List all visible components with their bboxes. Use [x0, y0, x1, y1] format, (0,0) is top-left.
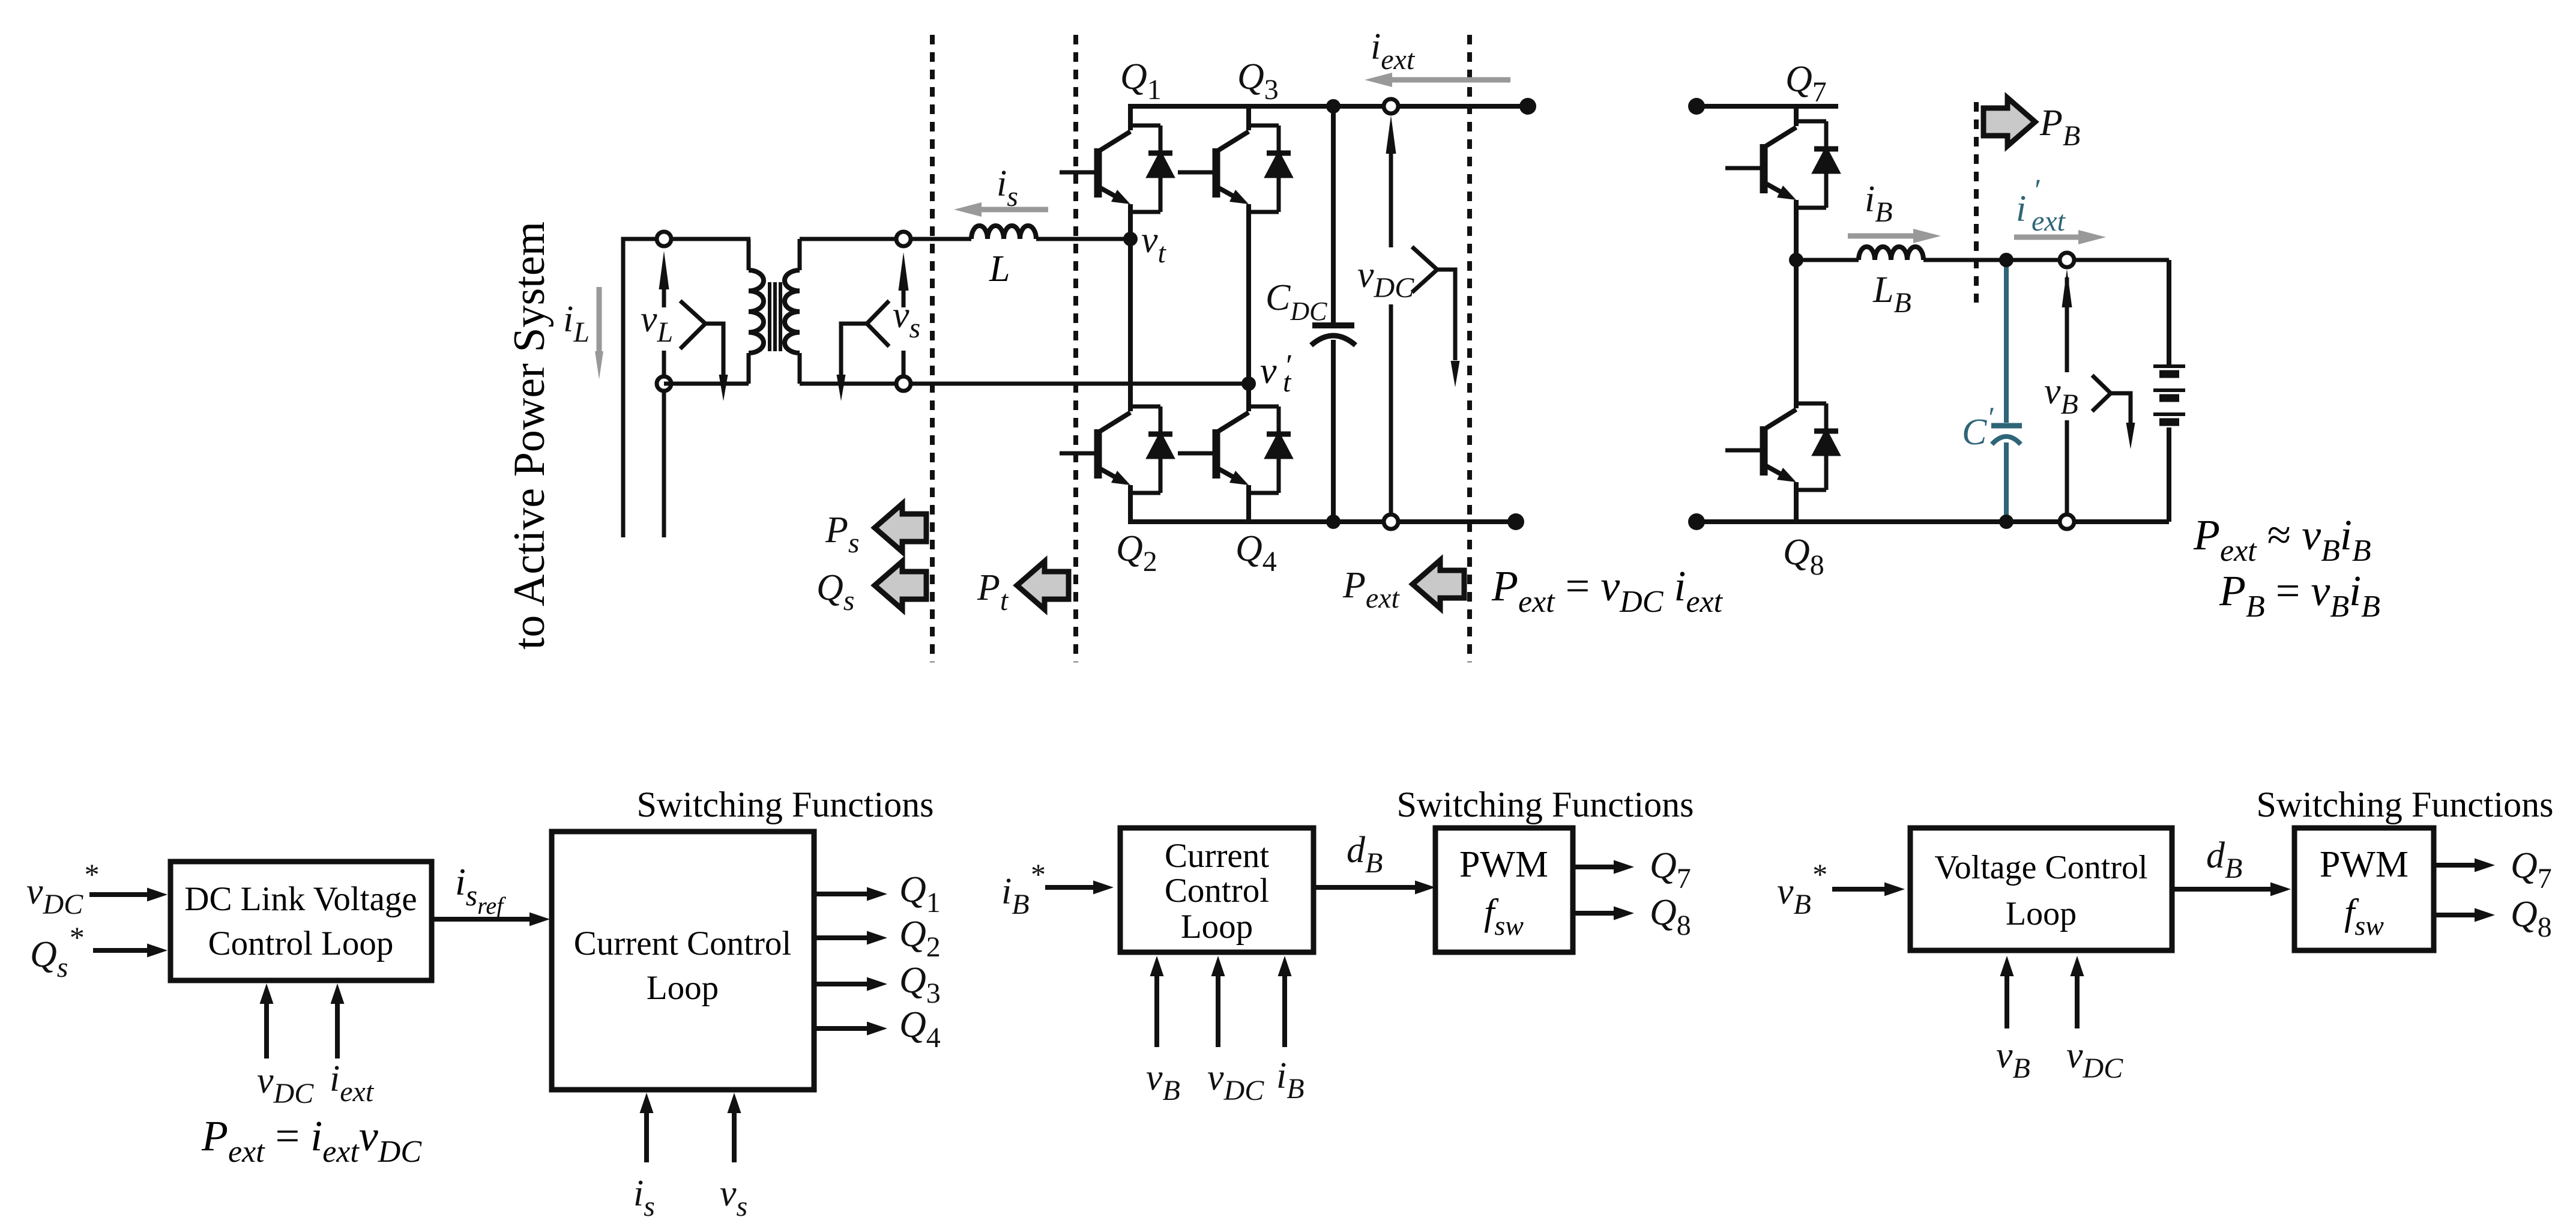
svg-text:Control Loop: Control Loop — [208, 925, 394, 962]
wire: Q3 collector — [1246, 106, 1251, 130]
output arrow Q7 (1) — [1573, 865, 1616, 869]
feedback arrow v_B (block2) — [1154, 974, 1159, 1047]
node v_t-prime — [1241, 376, 1256, 391]
wire: Q7 emitter to mid node — [1794, 200, 1799, 260]
input arrow i_B-star — [1045, 885, 1096, 890]
feedback arrow v_DC (block3) — [2075, 974, 2080, 1028]
wire: Q8 emitter — [1794, 482, 1799, 522]
wire: Q4 emitter to bottom rail — [1246, 485, 1251, 522]
feedback arrow i_s — [644, 1111, 649, 1162]
output arrow Q2 — [814, 935, 869, 940]
dashed boundary line 2 — [1073, 35, 1078, 662]
transistor Q2 — [1060, 406, 1172, 493]
node C-prime bottom — [1999, 515, 2013, 529]
power arrow P_t — [1017, 561, 1069, 609]
svg-text:PWM: PWM — [1459, 844, 1548, 885]
node C_DC bottom — [1326, 515, 1341, 529]
transformer primary winding — [747, 239, 751, 270]
output arrow Q8 (1) — [1573, 911, 1616, 916]
svg-text:Current Control: Current Control — [574, 925, 792, 962]
wire: Q7 collector — [1794, 106, 1799, 126]
transistor Q7 — [1725, 121, 1838, 208]
feedback arrow v_B (block3) — [2004, 974, 2009, 1028]
feedback arrow v_DC (block1) — [264, 1001, 269, 1058]
voltage arrow v_B — [2065, 420, 2069, 522]
arrow d_B (1) — [1314, 885, 1417, 890]
transistor Q8 — [1725, 403, 1838, 490]
transformer core — [768, 282, 771, 351]
transformer secondary winding — [798, 239, 802, 270]
power arrow P_B — [1983, 98, 2035, 146]
wire: secondary top to bridge — [800, 237, 971, 241]
svg-text:Current: Current — [1165, 837, 1269, 875]
node: top rail right end — [1519, 98, 1536, 115]
svg-text:to Active Power System: to Active Power System — [505, 222, 554, 650]
svg-text:Loop: Loop — [1181, 908, 1253, 946]
wire: battery converter top rail — [1697, 104, 1838, 109]
terminal circles vL — [657, 232, 671, 246]
node bottom rail left end — [1688, 513, 1705, 530]
wire: DC top rail — [1128, 104, 1528, 109]
wire: Q8 collector — [1794, 260, 1799, 408]
wire: battery converter bottom rail — [1697, 519, 2169, 524]
v_DC chevron probe — [1412, 247, 1437, 292]
arrow i_s_ref — [433, 917, 532, 922]
current arrow i_ext-prime — [2014, 235, 2078, 240]
node C_DC top — [1326, 99, 1341, 113]
feedback arrow i_ext (block1) — [335, 1001, 340, 1058]
output arrow Q3 — [814, 982, 869, 986]
capacitor C_DC — [1331, 106, 1336, 323]
block PWM f_sw (2) — [2294, 828, 2434, 950]
wire: Q3 emitter to v_t-prime — [1246, 204, 1251, 384]
output arrow Q1 — [814, 892, 869, 896]
svg-text:Switching Functions: Switching Functions — [636, 785, 934, 824]
wire: Q2 emitter to bottom rail — [1128, 485, 1133, 522]
block PWM f_sw (1) — [1435, 828, 1573, 952]
wire: grid bus left — [623, 239, 750, 537]
block Voltage Control Loop — [1910, 828, 2172, 950]
transistor Q3 — [1178, 125, 1291, 212]
feedback arrow v_DC (block2) — [1216, 974, 1220, 1047]
svg-text:v′t: v′t — [1260, 349, 1292, 398]
block Current Control Loop (battery) — [1120, 828, 1314, 952]
wire: Q2 collector from v_t — [1128, 239, 1133, 411]
svg-text:DC Link Voltage: DC Link Voltage — [184, 880, 417, 918]
dashed boundary line 1 — [930, 35, 935, 662]
output arrow Q4 — [814, 1026, 869, 1031]
terminal circle battery - — [2060, 515, 2074, 529]
power arrow Q_s — [875, 561, 926, 609]
output arrow Q7 (2) — [2434, 863, 2477, 868]
dashed boundary line 4 — [1974, 102, 1979, 303]
inductor L — [971, 226, 1036, 239]
svg-text:L: L — [989, 249, 1010, 289]
transistor Q4 — [1178, 406, 1291, 493]
svg-text:Loop: Loop — [2006, 895, 2077, 932]
wire: DC bottom rail — [1128, 519, 1516, 524]
wire: primary bottom — [664, 382, 749, 386]
current arrow is — [982, 207, 1048, 213]
block Current Control Loop (grid) — [552, 832, 814, 1090]
dashed boundary line 3 — [1467, 35, 1472, 662]
feedback arrow v_s — [732, 1111, 737, 1162]
battery — [2167, 260, 2171, 365]
terminal circle DC- — [1384, 515, 1398, 529]
svg-text:Loop: Loop — [647, 969, 719, 1007]
current arrow i_B — [1848, 234, 1913, 239]
power arrow P_ext — [1413, 560, 1464, 608]
arrow d_B (2) — [2174, 887, 2273, 892]
capacitor C-prime (teal) — [2004, 260, 2009, 423]
wire: mid node to L_B — [1796, 258, 1859, 262]
terminal circle DC+ — [1384, 99, 1398, 113]
voltage arrow v_DC — [1389, 246, 1393, 522]
svg-text:Switching Functions: Switching Functions — [2256, 785, 2553, 824]
terminal circle battery + — [2060, 253, 2074, 267]
vs chevron probe — [867, 301, 889, 346]
input arrow v_DC-star — [89, 892, 149, 897]
svg-text:Control: Control — [1165, 872, 1269, 910]
node Q7 emitter / L_B — [1789, 253, 1803, 267]
input arrow v_B-star — [1832, 887, 1887, 892]
terminal circles vs — [896, 232, 911, 246]
v_B chevron probe — [2092, 375, 2111, 411]
wire: secondary bottom to v_t-prime node — [800, 382, 1249, 386]
node: bottom rail right end — [1507, 513, 1524, 530]
block DC Link Voltage Control Loop — [170, 862, 432, 980]
output arrow Q8 (2) — [2434, 913, 2477, 917]
svg-text:PWM: PWM — [2320, 844, 2409, 885]
node v_t — [1123, 232, 1138, 246]
wire: Q1 collector — [1128, 106, 1133, 130]
power arrow P_s — [875, 504, 926, 552]
node C-prime top — [1999, 253, 2013, 267]
svg-text:Switching Functions: Switching Functions — [1396, 785, 1694, 824]
current arrow iL — [597, 287, 602, 355]
wire: grid bus right — [662, 384, 666, 537]
voltage arrow vs — [902, 351, 906, 384]
input arrow Q_s-star — [93, 948, 149, 953]
node top rail left end — [1688, 98, 1705, 115]
voltage arrow vL — [662, 351, 666, 384]
wire: Q4 collector from v_t-prime — [1246, 384, 1251, 411]
vL chevron probe — [680, 301, 705, 349]
transistor Q1 — [1060, 125, 1172, 212]
wire: Q1 emitter to v_t — [1128, 204, 1133, 239]
inductor L_B — [1859, 247, 1923, 260]
svg-text:Voltage Control: Voltage Control — [1934, 849, 2147, 886]
feedback arrow i_B (block2) — [1282, 974, 1287, 1047]
current arrow i_ext — [1392, 77, 1510, 83]
